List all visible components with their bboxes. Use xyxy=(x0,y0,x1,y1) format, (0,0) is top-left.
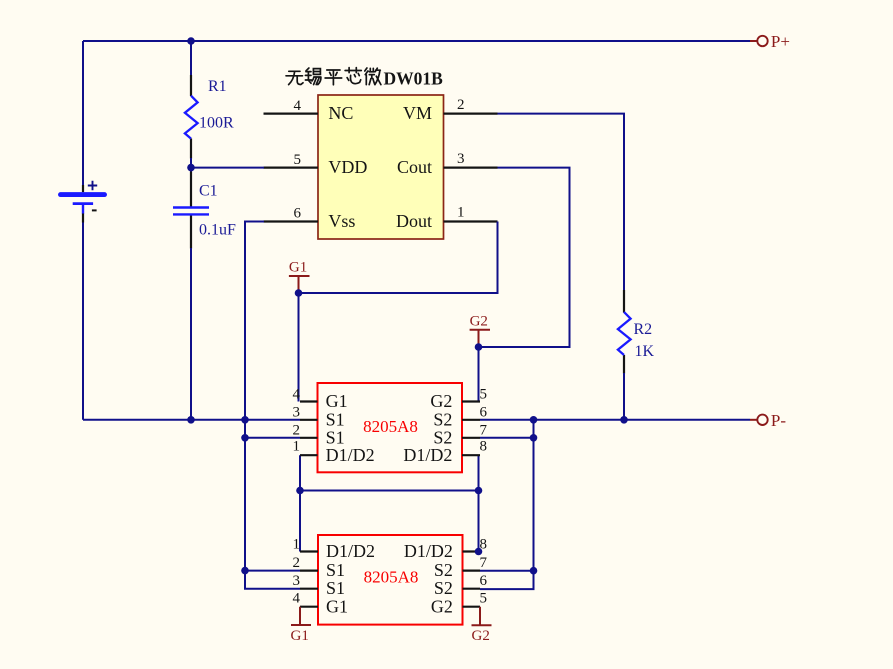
svg-text:G1: G1 xyxy=(326,391,348,411)
svg-text:2: 2 xyxy=(293,555,301,571)
svg-text:C1: C1 xyxy=(199,183,218,200)
svg-text:NC: NC xyxy=(328,103,353,123)
resistor R2 xyxy=(618,290,655,374)
node P- at S2 vertical xyxy=(530,416,538,424)
net label G1 (top) xyxy=(289,260,310,293)
svg-text:2: 2 xyxy=(293,422,301,438)
wire Cout to G2 node xyxy=(479,168,570,347)
transistor U3 8205A8 body xyxy=(318,535,463,625)
svg-text:D1/D2: D1/D2 xyxy=(326,445,375,465)
svg-text:G2: G2 xyxy=(472,628,490,644)
op-amp U1 DW01B body xyxy=(318,95,444,239)
svg-text:G1: G1 xyxy=(289,260,307,276)
U3 pin 2 S1 xyxy=(293,555,346,580)
svg-text:R1: R1 xyxy=(208,78,227,95)
无 xyxy=(286,71,303,84)
node G2 xyxy=(475,343,483,351)
svg-text:5: 5 xyxy=(480,591,488,607)
svg-text:P-: P- xyxy=(771,411,786,430)
wire C1 bottom to P- rail xyxy=(190,248,192,420)
node P- at S1 vertical xyxy=(241,416,249,424)
U2 pin 8 D1/D2 xyxy=(403,439,487,465)
U2 pin 5 G2 xyxy=(430,386,487,411)
node G1 xyxy=(295,289,303,297)
svg-text:DW01B: DW01B xyxy=(384,68,444,88)
svg-text:VDD: VDD xyxy=(328,157,367,177)
svg-text:G2: G2 xyxy=(430,391,452,411)
wire Vss net (x=245 vertical) xyxy=(245,222,300,589)
svg-text:8205A8: 8205A8 xyxy=(363,417,418,436)
U3 pin 4 G1 xyxy=(293,591,349,617)
node D1D2 left xyxy=(296,487,304,495)
wire D1/D2 right link xyxy=(478,455,480,551)
svg-text:1: 1 xyxy=(293,439,301,455)
net label G2 (bottom) xyxy=(472,607,492,644)
svg-text:5: 5 xyxy=(480,386,488,402)
svg-text:R2: R2 xyxy=(634,321,653,338)
svg-text:S2: S2 xyxy=(434,578,453,598)
wire battery minus to P- rail xyxy=(83,223,300,420)
U2 pin 4 G1 xyxy=(293,386,348,411)
svg-text:3: 3 xyxy=(457,151,465,167)
wire D1/D2 left link xyxy=(300,455,479,551)
svg-text:G1: G1 xyxy=(326,596,348,616)
svg-text:P+: P+ xyxy=(771,32,790,51)
svg-text:S2: S2 xyxy=(434,560,453,580)
svg-text:1: 1 xyxy=(293,536,301,552)
node P+ / R1 top xyxy=(187,37,195,45)
port P- xyxy=(750,411,786,430)
wire R2 bottom to P- rail xyxy=(623,373,625,420)
battery BT1 xyxy=(61,181,105,223)
svg-text:Dout: Dout xyxy=(396,211,432,231)
芯 xyxy=(345,68,361,84)
U3 pin 7 S2 xyxy=(434,555,488,580)
svg-text:6: 6 xyxy=(480,573,488,589)
wire Dout to G1 node xyxy=(299,222,498,402)
svg-text:1K: 1K xyxy=(635,343,655,360)
node P- at C1 xyxy=(187,416,195,424)
wire P- rail right xyxy=(480,419,750,421)
U3 pin 6 S2 xyxy=(434,573,488,598)
node P- at R2 xyxy=(620,416,628,424)
svg-text:D1/D2: D1/D2 xyxy=(326,541,375,561)
U3 pin 8 D1/D2 xyxy=(404,536,487,561)
svg-text:8: 8 xyxy=(480,439,488,455)
svg-text:Cout: Cout xyxy=(397,157,432,177)
title 无锡平芯微 (hand-drawn CJK strokes) xyxy=(286,68,381,85)
svg-text:VM: VM xyxy=(403,103,432,123)
wire S2 net (x=533.5 vertical) xyxy=(480,420,534,589)
wire net P+ top rail xyxy=(83,41,750,186)
U2 pin 1 D1/D2 xyxy=(293,439,375,465)
svg-text:S1: S1 xyxy=(326,409,345,429)
U2 pin 6 S2 xyxy=(433,404,487,429)
U2 pin 7 S2 xyxy=(433,422,487,447)
svg-text:3: 3 xyxy=(293,404,301,420)
svg-text:6: 6 xyxy=(294,206,302,222)
transistor U2 8205A8 body xyxy=(318,383,463,472)
svg-text:5: 5 xyxy=(294,152,302,168)
junction node dots xyxy=(187,37,628,574)
svg-text:6: 6 xyxy=(480,404,488,420)
U1 pin 1 Dout xyxy=(396,205,498,231)
svg-text:7: 7 xyxy=(480,555,488,571)
port P+ xyxy=(750,32,790,51)
net label G2 (top) xyxy=(470,314,490,346)
U1 pin 2 VM xyxy=(403,97,498,123)
svg-text:4: 4 xyxy=(294,98,302,114)
node S1 pin2 U3 xyxy=(241,567,249,575)
wire R1 to VDD node xyxy=(191,158,264,172)
U2 pin 3 S1 xyxy=(293,404,345,429)
U1 pin 4 NC xyxy=(264,98,354,123)
U3 pin 1 D1/D2 xyxy=(293,536,376,561)
svg-text:G2: G2 xyxy=(470,314,488,330)
resistor R1 xyxy=(185,75,234,159)
net label G1 (bottom) xyxy=(291,607,312,644)
svg-text:G1: G1 xyxy=(291,628,309,644)
U3 pin 5 G2 xyxy=(431,591,487,617)
svg-text:4: 4 xyxy=(293,386,301,402)
capacitor C1 xyxy=(173,172,236,249)
svg-text:7: 7 xyxy=(480,422,488,438)
U1 pin 6 Vss xyxy=(264,206,356,232)
svg-text:Vss: Vss xyxy=(328,211,355,231)
svg-text:8205A8: 8205A8 xyxy=(364,568,419,587)
svg-text:D1/D2: D1/D2 xyxy=(404,541,453,561)
svg-text:4: 4 xyxy=(293,591,301,607)
node S2 pin7 U3 xyxy=(530,567,538,575)
U2 pin 2 S1 xyxy=(293,422,345,447)
svg-text:D1/D2: D1/D2 xyxy=(403,445,452,465)
svg-text:0.1uF: 0.1uF xyxy=(199,222,236,239)
node S2 pin7 U2 xyxy=(530,434,538,442)
svg-text:S1: S1 xyxy=(326,578,345,598)
wire G2 node to U2 pin5 xyxy=(478,347,480,402)
svg-text:100R: 100R xyxy=(199,115,234,132)
svg-text:3: 3 xyxy=(293,573,301,589)
U1 pin 3 Cout xyxy=(397,151,498,177)
node VDD xyxy=(187,164,195,172)
node S1 pin2 U2 xyxy=(241,434,249,442)
U1 pin 5 VDD xyxy=(264,152,368,177)
node D1D2 right xyxy=(475,487,483,495)
svg-text:1: 1 xyxy=(457,205,465,221)
wire VM to R2 xyxy=(498,114,625,293)
node D1D2 pin8 U3 xyxy=(475,548,483,556)
锡 xyxy=(305,68,321,85)
svg-text:S1: S1 xyxy=(326,560,345,580)
平 xyxy=(325,70,342,85)
svg-text:S2: S2 xyxy=(433,409,452,429)
svg-text:2: 2 xyxy=(457,97,465,113)
svg-text:G2: G2 xyxy=(431,596,453,616)
U3 pin 3 S1 xyxy=(293,573,346,598)
微 xyxy=(365,68,381,85)
